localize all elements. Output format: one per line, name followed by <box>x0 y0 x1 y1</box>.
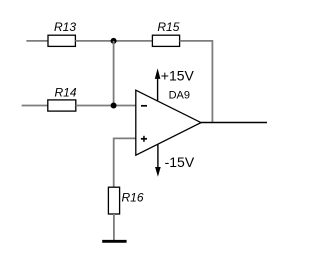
svg-text:-15V: -15V <box>165 154 195 170</box>
svg-text:DA9: DA9 <box>169 89 190 101</box>
svg-text:+15V: +15V <box>161 68 195 84</box>
wire <box>75 40 152 42</box>
node A <box>111 38 117 44</box>
wire <box>22 105 48 107</box>
op-amp DA9 <box>136 89 201 155</box>
wire <box>26 40 48 42</box>
resistor R14 <box>48 86 77 112</box>
wire <box>114 138 136 187</box>
wire <box>180 41 213 123</box>
wire <box>113 41 115 106</box>
resistor R15 <box>152 20 179 46</box>
wire <box>76 105 136 107</box>
ground <box>102 240 126 243</box>
svg-text:R15: R15 <box>157 20 179 34</box>
svg-text:R13: R13 <box>54 20 76 34</box>
svg-text:R14: R14 <box>55 86 77 100</box>
svg-text:R16: R16 <box>122 190 144 204</box>
resistor R13 <box>48 20 76 46</box>
power -15V <box>155 145 195 177</box>
wire <box>201 122 267 124</box>
node B <box>111 103 117 109</box>
resistor R16 <box>108 187 143 214</box>
wire <box>113 214 115 241</box>
power +15V <box>155 68 195 101</box>
